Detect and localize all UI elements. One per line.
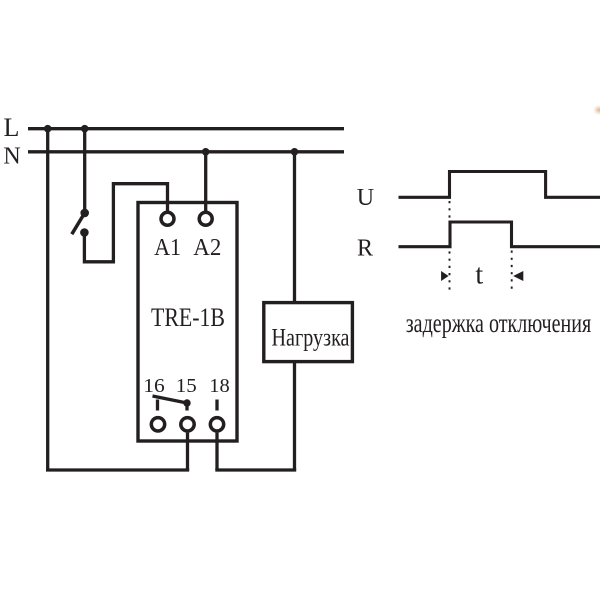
node L1 junction dot — [44, 125, 52, 133]
load box Нагрузка — [264, 303, 353, 362]
wire from node N1 to terminal A2 — [204, 152, 207, 211]
relay contact stub 15 — [185, 404, 188, 411]
svg-text:15: 15 — [176, 375, 197, 397]
arrow marker right (points left) — [513, 271, 523, 281]
wire from node L1 down to bottom bus — [46, 129, 49, 470]
switch S1 top contact dot — [80, 209, 89, 218]
decorative orange smudge at right edge — [593, 105, 600, 116]
svg-text:t: t — [475, 259, 483, 290]
wire N bus — [28, 150, 344, 153]
dotted marker line at R fall — [511, 251, 513, 291]
node L2 junction dot — [81, 125, 89, 133]
relay TRE-1B box — [138, 203, 237, 442]
relay contact pivot dot at 15 — [183, 399, 190, 406]
wire L bus — [28, 127, 344, 130]
wire from node L2 down to switch S1 — [83, 129, 86, 213]
wire bottom-left bus — [46, 468, 189, 471]
waveform U trace — [399, 172, 600, 198]
svg-text:N: N — [3, 144, 20, 170]
svg-text:R: R — [357, 236, 373, 262]
relay contact lever from 16 to pivot 15 — [153, 396, 188, 403]
wire from load box down to bottom-right bus — [293, 362, 296, 470]
relay contact stub 18 — [215, 400, 218, 411]
terminal 15 circle — [181, 418, 194, 431]
dotted marker line at U rise — [449, 201, 451, 290]
svg-text:L: L — [4, 113, 20, 142]
switch S1 bottom contact dot — [80, 228, 89, 237]
svg-text:16: 16 — [143, 375, 165, 397]
terminal 18 circle — [210, 418, 223, 431]
wire from switch S1 to terminal A1 — [84, 184, 167, 262]
arrow marker left (points right) — [441, 271, 449, 281]
node N1 junction dot — [202, 148, 210, 156]
wire bottom-right bus — [215, 468, 296, 471]
svg-text:TRE-1B: TRE-1B — [151, 302, 225, 332]
svg-text:18: 18 — [209, 375, 230, 397]
wire from terminal 18 down to bottom-right bus — [215, 433, 218, 470]
svg-text:A1: A1 — [154, 235, 181, 261]
svg-text:задержка отключения: задержка отключения — [406, 308, 592, 338]
svg-text:U: U — [357, 185, 374, 211]
wire from node N2 down to load box — [293, 152, 296, 303]
svg-text:Нагрузка: Нагрузка — [272, 324, 350, 351]
relay contact stub 16 — [156, 400, 159, 411]
terminal 16 circle — [151, 418, 164, 431]
terminal A2 circle — [199, 212, 212, 225]
waveform R trace — [399, 222, 600, 247]
switch S1 lever — [72, 213, 85, 234]
wire from terminal 15 down to bottom-left bus — [186, 433, 189, 470]
terminal A1 circle — [161, 212, 174, 225]
node N2 junction dot — [291, 148, 299, 156]
svg-text:A2: A2 — [193, 235, 221, 261]
